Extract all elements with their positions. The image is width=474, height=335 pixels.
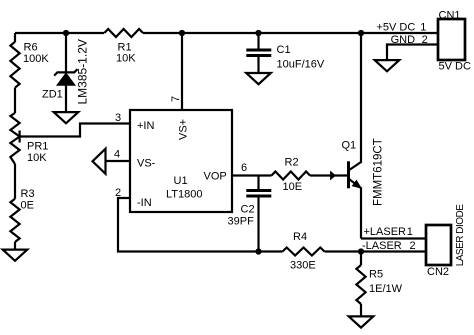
svg-text:10K: 10K — [27, 152, 47, 164]
svg-text:LASER DIODE: LASER DIODE — [455, 204, 466, 267]
wire R5 top — [360, 252, 362, 266]
wire wiper to +IN — [20, 124, 130, 137]
svg-text:VS-: VS- — [137, 158, 156, 170]
connector CN1 — [438, 19, 465, 60]
emitter arrow — [353, 181, 360, 188]
wire +LASER — [361, 237, 426, 239]
pin 7 wire — [181, 33, 183, 110]
resistor R1 — [104, 29, 143, 37]
svg-text:-IN: -IN — [137, 197, 152, 209]
transistor Q1 collector — [349, 33, 361, 170]
svg-text:R5: R5 — [369, 268, 383, 280]
svg-text:R3: R3 — [21, 188, 35, 200]
svg-text:2: 2 — [410, 240, 416, 252]
resistor R6 — [10, 42, 19, 88]
svg-text:Q1: Q1 — [342, 140, 357, 152]
svg-text:C1: C1 — [277, 44, 291, 56]
wire left rail mid1 — [14, 88, 16, 113]
svg-text:FMMT619CT: FMMT619CT — [373, 138, 385, 206]
wire -LASER right — [325, 250, 427, 252]
svg-text:1: 1 — [407, 226, 413, 238]
potentiometer PR1 — [10, 113, 19, 164]
node pin7 tap — [179, 30, 185, 36]
ground R5 — [349, 316, 374, 327]
node R5 tap — [358, 248, 364, 254]
svg-text:1E/1W: 1E/1W — [369, 283, 403, 295]
svg-text:PR1: PR1 — [27, 141, 48, 153]
wire C1 top — [257, 33, 259, 50]
transistor Q1 emitter — [349, 179, 361, 238]
capacitor C2 — [246, 191, 271, 197]
svg-text:7: 7 — [170, 96, 182, 102]
svg-text:1: 1 — [420, 22, 426, 34]
svg-text:0E: 0E — [21, 200, 34, 212]
resistor R5 — [356, 265, 365, 304]
pin CN1-2 wire — [387, 45, 438, 61]
zener diode ZD1 — [58, 74, 75, 86]
wire ZD1 top — [65, 33, 67, 73]
svg-text:2: 2 — [115, 187, 121, 199]
wire left rail mid2 — [14, 164, 16, 199]
svg-text:330E: 330E — [290, 260, 316, 272]
svg-text:VS+: VS+ — [178, 119, 190, 140]
svg-text:-LASER: -LASER — [362, 240, 402, 252]
ground ZD1 — [54, 112, 79, 123]
svg-text:2: 2 — [422, 34, 428, 46]
op-amp U1 — [130, 110, 232, 212]
wire C2 top — [257, 176, 259, 191]
node ZD1 tap — [63, 30, 69, 36]
svg-text:4: 4 — [114, 149, 120, 161]
wire left rail top — [14, 33, 16, 42]
node C1 tap — [255, 30, 261, 36]
wire C1 bottom — [257, 56, 259, 74]
pin 6 wire — [232, 174, 272, 176]
ground C1 — [246, 73, 271, 84]
svg-text:CN2: CN2 — [427, 266, 449, 278]
ground R3 — [3, 250, 28, 261]
resistor R4 — [283, 248, 325, 256]
svg-text:+5V DC: +5V DC — [377, 22, 416, 34]
svg-text:100K: 100K — [23, 53, 49, 65]
wire top rail left — [15, 32, 104, 34]
svg-text:10E: 10E — [283, 181, 303, 193]
connector CN2 — [426, 225, 451, 265]
capacitor C1 — [246, 50, 271, 56]
svg-text:VOP: VOP — [204, 171, 227, 183]
wire C2 bottom — [257, 196, 259, 252]
wiper PR1 — [19, 131, 21, 143]
svg-text:R4: R4 — [293, 231, 307, 243]
wire top rail right — [143, 32, 438, 34]
wire left rail bottom — [14, 242, 16, 250]
svg-text:C2: C2 — [241, 203, 255, 215]
ground CN1 — [375, 60, 400, 71]
node collector tap — [358, 30, 364, 36]
resistor R2 — [272, 172, 311, 180]
pin 4 wire — [105, 160, 130, 162]
svg-text:+LASER: +LASER — [364, 226, 407, 238]
wire ZD1 bottom — [65, 85, 67, 113]
svg-text:CN1: CN1 — [439, 10, 461, 22]
pin 2 wire — [118, 198, 259, 252]
svg-text:R6: R6 — [24, 42, 38, 54]
svg-text:GND: GND — [391, 34, 416, 46]
arrow to base — [331, 172, 336, 180]
svg-text:LT1800: LT1800 — [166, 189, 203, 201]
arrow VS- — [93, 149, 106, 174]
wire R5 bottom — [360, 304, 362, 317]
wire R2 to base — [310, 174, 348, 176]
svg-text:3: 3 — [115, 112, 121, 124]
node C2 junction — [255, 248, 261, 254]
svg-text:5V DC: 5V DC — [439, 61, 471, 73]
resistor R3 — [10, 199, 19, 242]
svg-text:6: 6 — [241, 162, 247, 174]
svg-text:ZD1: ZD1 — [42, 89, 63, 101]
svg-text:10K: 10K — [116, 53, 136, 65]
svg-text:+IN: +IN — [137, 120, 154, 132]
wire -LASER left — [259, 250, 283, 252]
transistor Q1 base bar — [347, 161, 350, 188]
svg-text:U1: U1 — [174, 175, 188, 187]
svg-text:39PF: 39PF — [228, 216, 255, 228]
svg-text:10uF/16V: 10uF/16V — [277, 58, 325, 70]
svg-text:R2: R2 — [285, 157, 299, 169]
svg-text:LM385-1.2V: LM385-1.2V — [76, 39, 90, 104]
